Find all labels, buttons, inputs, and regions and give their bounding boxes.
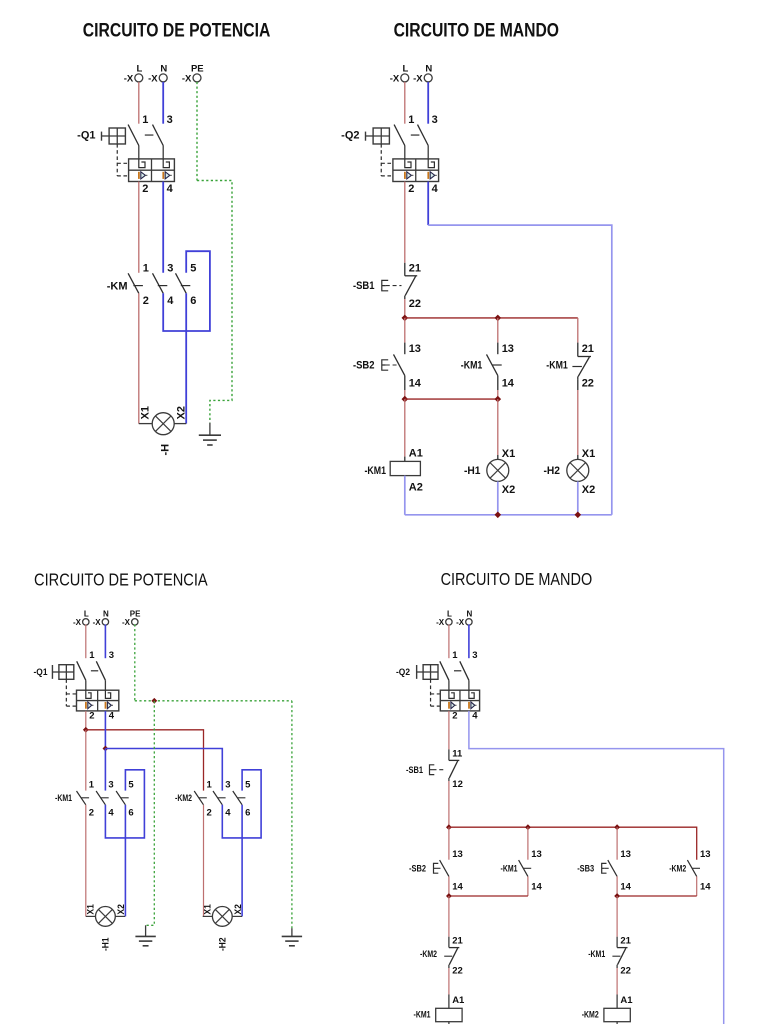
breaker -Q2 trip linkage (dashed) (380, 144, 382, 176)
svg-text:5: 5 (245, 780, 251, 791)
svg-text:N: N (467, 610, 473, 619)
svg-text:-Q2: -Q2 (341, 130, 359, 142)
svg-text:2: 2 (142, 183, 148, 195)
breaker -Q1 thermal element pole x=85.8 (86, 690, 91, 698)
svg-text:-KM1: -KM1 (501, 864, 519, 875)
svg-text:21: 21 (582, 343, 594, 355)
contactor KM pole 3-4 blade (153, 273, 164, 293)
lamp -H2 (212, 907, 232, 927)
node junction bus/KM1-NO (525, 824, 531, 830)
wire PE dashed green from terminal (196, 82, 198, 181)
wire SB2 out (red) (448, 876, 450, 896)
wire from Q1 pole 4 down to contactor KM (blue) (162, 182, 164, 273)
svg-text:-X: -X (73, 618, 82, 627)
wire stub lamp X2 (174, 423, 186, 425)
terminal -X PE (132, 619, 138, 625)
wire SB3 out (red) (616, 876, 618, 896)
svg-text:4: 4 (472, 710, 478, 721)
seal bus right pair (red) (617, 895, 697, 897)
svg-text:L: L (136, 64, 142, 75)
wire branch lead x=404.8 (red) (404, 318, 406, 343)
svg-text:N: N (103, 610, 109, 619)
contactor -KM1 link dash 3 (121, 797, 129, 799)
svg-text:-H1: -H1 (100, 937, 111, 951)
svg-text:22: 22 (452, 965, 463, 976)
contact -SB3 NO blade (608, 860, 617, 876)
svg-text:-X: -X (182, 74, 192, 85)
svg-text:2: 2 (408, 183, 414, 195)
svg-text:1: 1 (408, 114, 414, 126)
svg-text:-H2: -H2 (217, 938, 228, 952)
wire branch lead x=577.8 (red) (577, 318, 579, 343)
bus wire seal-in (red) (405, 398, 498, 400)
wire down to NC -KM2 (red) (448, 896, 450, 937)
contactor -KM1 link dash 1 (81, 797, 89, 799)
wire KM pole6 down to lamp X2 (blue) (185, 293, 187, 423)
seal bus left pair (red) (449, 895, 528, 897)
svg-text:14: 14 (409, 378, 422, 390)
pushbutton -SB2 (NO) blade (394, 354, 405, 375)
svg-text:L: L (447, 610, 452, 619)
svg-text:X1: X1 (139, 406, 151, 419)
svg-text:3: 3 (472, 650, 477, 661)
breaker -Q2 trip linkage (dashed) (430, 679, 432, 706)
terminal -X L (135, 74, 143, 82)
PE green bus horizontal (bottom-left) (135, 700, 292, 702)
svg-text:2: 2 (89, 808, 94, 819)
contact -KM1 NO link dash (492, 364, 502, 366)
svg-text:3: 3 (108, 780, 113, 791)
svg-text:A1: A1 (409, 447, 423, 459)
svg-text:22: 22 (409, 298, 421, 310)
svg-text:X2: X2 (233, 904, 244, 915)
svg-text:3: 3 (167, 114, 173, 126)
svg-text:A2: A2 (409, 481, 423, 493)
wire down to NC -KM1 (red) (616, 896, 618, 937)
wire red down to KM1 pole1 (85, 730, 87, 791)
contact -KM1 NC link dash (572, 366, 582, 368)
wire L to Q2 (red) (448, 624, 450, 658)
wire stub below coil -KM2 (616, 1022, 618, 1024)
svg-text:2: 2 (89, 710, 94, 721)
wire branch lead x=527.9 (red) (527, 827, 529, 860)
node junction blue bus (103, 746, 109, 752)
svg-text:-SB1: -SB1 (353, 280, 375, 292)
breaker -Q1 thermal element pole x=138.8 (139, 159, 145, 168)
svg-text:12: 12 (452, 779, 463, 790)
pushbutton -SB1 (NC) (448, 749, 450, 760)
node junction red bus (83, 727, 89, 733)
contactor -KM2 pole blade 3 (233, 791, 242, 805)
breaker -Q2 blade link dash (454, 670, 461, 672)
svg-text:CIRCUITO DE MANDO: CIRCUITO DE MANDO (394, 21, 559, 42)
breaker -Q2 magnetic element I> pole x=404.8 (404, 172, 406, 179)
svg-text:-KM1: -KM1 (461, 360, 483, 372)
svg-text:13: 13 (700, 849, 711, 860)
breaker -Q1 operating mechanism (59, 665, 74, 680)
bottom bus wire (blue) (405, 514, 612, 516)
svg-text:6: 6 (190, 295, 196, 307)
svg-text:-X: -X (413, 74, 423, 85)
wire H1 X2 to bottom bus (blue) (497, 481, 499, 514)
svg-text:PE: PE (130, 610, 141, 619)
lamp -H2 (567, 459, 589, 481)
wire stub lamp X2 (-H1) (115, 915, 125, 917)
breaker -Q1 magnetic element I> pole x=85.8 (85, 702, 87, 709)
breaker -Q1 contact blades (77, 661, 86, 680)
wire stub below coil -KM1 (448, 1022, 450, 1024)
svg-text:4: 4 (432, 183, 439, 195)
wire down to coil KM1 (red) (404, 399, 406, 457)
breaker -Q2 thermal element pole x=448.9 (449, 690, 454, 698)
node junction seal-in right (495, 396, 502, 403)
contactor -KM2 pole blade 1 (194, 791, 203, 805)
wire H2 X2 to bottom bus (blue) (577, 481, 579, 514)
wire SB2 out (dark then red) (404, 376, 406, 390)
svg-text:13: 13 (409, 343, 421, 355)
pushbutton -SB2 actuator (434, 863, 439, 873)
main bus wire (red) (449, 827, 697, 860)
wire -KM1 pole4 loop to pole5 (blue) (105, 770, 144, 838)
wire KM pole4 loop down-right-up to pole5 (blue) (163, 251, 210, 331)
bus wire to KM2 pole1 (dark red) (86, 730, 204, 791)
svg-text:-Q2: -Q2 (396, 667, 410, 678)
terminal -X N (102, 619, 108, 625)
svg-text:5: 5 (190, 263, 196, 275)
svg-text:N: N (425, 64, 432, 75)
node junction seal left (446, 893, 452, 899)
svg-text:4: 4 (109, 710, 115, 721)
wire N to Q1 (blue) (104, 624, 106, 658)
wire from Q1 pole 2 down to contactor KM (red) (138, 182, 140, 273)
wire to right rail (light blue) (428, 225, 612, 515)
svg-text:A1: A1 (452, 995, 465, 1006)
svg-text:21: 21 (620, 936, 631, 947)
svg-text:X1: X1 (502, 448, 515, 460)
contactor -KM1 pole blade 1 (77, 791, 86, 805)
breaker -Q1 magnetic element I> pole x=163.2 (162, 172, 164, 179)
terminal -X PE (193, 74, 201, 82)
PE green drop to ground 2 (291, 701, 293, 928)
svg-text:-KM1: -KM1 (55, 793, 73, 804)
wire N from terminal to breaker Q1 (blue) (162, 82, 164, 124)
wire PE dashed green down (134, 624, 136, 700)
svg-text:13: 13 (531, 849, 542, 860)
svg-text:-X: -X (124, 74, 134, 85)
terminal -X L (446, 619, 452, 625)
svg-text:14: 14 (531, 882, 542, 893)
breaker -Q2 thermal element pole x=428.2 (428, 159, 434, 168)
lamp -H1 (96, 907, 116, 927)
contact lead SB2 (dark) (404, 343, 406, 355)
terminal -X N (424, 74, 432, 82)
svg-text:1: 1 (89, 780, 95, 791)
svg-text:-X: -X (456, 618, 465, 627)
svg-text:-KM1: -KM1 (588, 949, 606, 960)
svg-text:3: 3 (432, 114, 438, 126)
svg-text:-X: -X (390, 74, 400, 85)
contactor -KM1 pole blade 2 (96, 791, 105, 805)
node junction H2/bus (575, 512, 582, 519)
breaker -Q1 operating mechanism (109, 128, 125, 144)
wire Q2 pole4 to right rail (blue) (469, 711, 724, 1024)
svg-text:-X: -X (436, 618, 445, 627)
breaker -Q1 thermal element pole x=163.2 (163, 159, 169, 168)
svg-text:3: 3 (109, 650, 114, 661)
svg-text:22: 22 (620, 965, 631, 976)
coil -KM1 (436, 1008, 462, 1021)
svg-text:-KM2: -KM2 (420, 949, 437, 960)
breaker -Q2 magnetic element I> pole x=428.2 (427, 172, 429, 179)
breaker -Q1 blade link dash (91, 670, 98, 672)
svg-text:1: 1 (207, 780, 213, 791)
contact -KM1 NO link dash (523, 867, 531, 869)
wire KM2-NO out (red) (696, 876, 698, 896)
wire N to Q2 (blue) (468, 624, 470, 658)
svg-text:6: 6 (128, 808, 133, 819)
wire stub lamp X1 (-H1) (86, 915, 96, 917)
svg-text:X1: X1 (202, 903, 213, 914)
contactor KM pole 5-6 blade (176, 273, 187, 293)
contactor -KM2 link dash 1 (199, 797, 207, 799)
pushbutton -SB2 actuator (382, 360, 388, 370)
svg-text:14: 14 (620, 882, 631, 893)
svg-text:-H2: -H2 (544, 465, 561, 477)
contact -KM1 NC link dash (612, 955, 620, 957)
node junction SB1/bus (402, 315, 409, 322)
contactor -KM2 link dash 2 (218, 797, 226, 799)
svg-text:1: 1 (142, 114, 148, 126)
svg-text:-SB3: -SB3 (577, 864, 594, 875)
svg-text:N: N (160, 64, 167, 75)
svg-text:-Q1: -Q1 (77, 130, 95, 142)
wire Q2 pole2 down to SB1 (red) (448, 711, 450, 750)
wire blue down to KM1 pole3 (104, 749, 106, 791)
breaker -Q1 contact blades (128, 125, 139, 146)
svg-text:13: 13 (452, 849, 463, 860)
PE green drop to ground 1 (146, 701, 155, 926)
svg-text:-KM2: -KM2 (582, 1010, 599, 1021)
wire Q2 pole4 down (blue) (427, 182, 429, 226)
node junction seal-in left (402, 396, 409, 403)
terminal -X L (83, 619, 89, 625)
svg-text:4: 4 (167, 183, 174, 195)
svg-text:CIRCUITO DE MANDO: CIRCUITO DE MANDO (441, 569, 593, 589)
wire KM pole2 down to lamp (red) (138, 293, 140, 423)
bus wire upper (red) (405, 317, 578, 319)
contactor -KM1 link dash 2 (101, 797, 109, 799)
svg-text:CIRCUITO DE POTENCIA: CIRCUITO DE POTENCIA (34, 570, 208, 590)
pushbutton -SB3 actuator (602, 863, 607, 873)
svg-text:L: L (84, 610, 89, 619)
terminal -X N (466, 619, 472, 625)
wire stub lamp X2 (-H2) (232, 915, 242, 917)
ground symbol 2 (bottom-left) (291, 928, 293, 936)
svg-text:X2: X2 (502, 484, 515, 496)
breaker -Q1 thermal-magnetic box (77, 690, 119, 711)
wire Q1 pole2 down (red) (85, 711, 87, 730)
svg-text:21: 21 (452, 936, 463, 947)
svg-text:2: 2 (207, 808, 212, 819)
contactor KM pole 1-2 blade (128, 273, 139, 293)
wire -KM2 pole4 loop to pole5 (blue) (222, 770, 261, 838)
contact -KM2 NC (448, 937, 450, 948)
contact -KM1 NO blade (487, 354, 498, 375)
svg-text:-KM2: -KM2 (669, 864, 686, 875)
wire NC out to coil (red) (616, 968, 618, 995)
contact -KM1 NC (616, 937, 618, 948)
bus wire to KM2 pole3 (blue) (105, 749, 222, 791)
svg-text:-Q1: -Q1 (34, 667, 49, 678)
breaker -Q1 blade link dash (145, 134, 154, 136)
svg-text:-KM1: -KM1 (546, 360, 568, 372)
wire KM1-NO out (dark then red) (497, 376, 499, 390)
wire -KM1 pole6 down to lamp (blue) (124, 805, 126, 917)
svg-text:X1: X1 (582, 448, 595, 460)
svg-text:1: 1 (452, 650, 458, 661)
svg-text:3: 3 (167, 263, 173, 275)
svg-text:-SB1: -SB1 (406, 765, 424, 776)
svg-text:2: 2 (143, 295, 149, 307)
breaker -Q2 magnetic element I> pole x=448.9 (448, 702, 450, 709)
contact -KM2 NC link dash (444, 955, 452, 957)
svg-text:X1: X1 (85, 903, 96, 914)
breaker -Q1 trip linkage (dashed) (116, 144, 118, 176)
wire KM1-NC down to lamp H2 (dark then red) (577, 380, 579, 390)
svg-text:X2: X2 (582, 484, 595, 496)
coil -KM1 (390, 461, 420, 475)
contact -KM2 NO link dash (692, 867, 700, 869)
breaker -Q2 thermal element pole x=404.8 (405, 159, 411, 168)
svg-text:21: 21 (409, 262, 421, 274)
svg-text:14: 14 (502, 378, 515, 390)
svg-text:-KM1: -KM1 (365, 465, 387, 477)
breaker -Q2 operating mechanism (423, 665, 438, 680)
breaker -Q2 thermal-magnetic box (440, 690, 479, 711)
node junction bus/KM1-NO branch (495, 315, 502, 322)
svg-text:22: 22 (582, 378, 594, 390)
contactor KM pole link dash 2 (158, 285, 168, 287)
coil -KM2 (604, 1008, 630, 1021)
wire stub to lamp X1 (139, 423, 153, 425)
contactor -KM2 link dash 3 (238, 797, 246, 799)
svg-text:-SB2: -SB2 (353, 360, 375, 372)
svg-text:4: 4 (167, 295, 174, 307)
contactor -KM1 pole blade 3 (116, 791, 125, 805)
contact -KM1 NC lead (dark) (577, 343, 579, 357)
svg-text:-KM2: -KM2 (175, 793, 192, 804)
wire NC out to coil (red) (448, 968, 450, 995)
svg-text:-X: -X (93, 618, 102, 627)
contactor KM pole link dash 1 (133, 285, 143, 287)
svg-text:11: 11 (452, 749, 463, 760)
svg-text:X2: X2 (176, 406, 188, 419)
wire SB1 to node bus (red) (404, 299, 406, 318)
PE dashed green run to ground (top-left) (197, 181, 232, 423)
wire Q1 pole4 down (blue) (104, 711, 106, 749)
svg-text:5: 5 (128, 780, 134, 791)
svg-text:4: 4 (225, 808, 231, 819)
terminal -X L (401, 74, 409, 82)
node junction H1/bus (495, 512, 502, 519)
wire SB1 to main bus (red) (448, 781, 450, 827)
wire N to Q2 (blue) (427, 82, 429, 124)
svg-text:-H1: -H1 (464, 465, 481, 477)
svg-text:-X: -X (148, 74, 158, 85)
svg-text:-KM1: -KM1 (414, 1010, 432, 1021)
svg-text:14: 14 (700, 882, 711, 893)
contact -SB2 NO blade (440, 860, 449, 876)
pushbutton -SB1 (NC) (404, 263, 406, 276)
svg-text:13: 13 (620, 849, 631, 860)
wire -KM2 pole2 down to lamp (red) (203, 805, 205, 917)
breaker -Q2 blade link dash (411, 134, 420, 136)
breaker -Q1 thermal-magnetic box (129, 159, 175, 182)
wire branch lead x=617.1 (red) (616, 827, 618, 860)
svg-text:PE: PE (191, 64, 204, 75)
wire L from terminal to breaker Q1 (red) (138, 82, 140, 124)
wire branch lead x=497.8 (red) (497, 318, 499, 343)
wire -KM1 pole2 down to lamp (red) (85, 805, 87, 917)
breaker -Q1 trip linkage (dashed) (65, 679, 67, 706)
svg-text:13: 13 (502, 343, 514, 355)
wire stub lamp X1 (-H2) (203, 915, 213, 917)
breaker -Q1 magnetic element I> pole x=105.4 (105, 702, 107, 709)
contact lead KM1-NO (dark) (497, 343, 499, 355)
contactor -KM2 pole blade 2 (213, 791, 222, 805)
svg-text:-H: -H (159, 444, 171, 456)
svg-text:A1: A1 (620, 995, 633, 1006)
wire L to Q1 (red) (85, 624, 87, 658)
node junction on PE bus (151, 698, 157, 704)
svg-text:-X: -X (122, 618, 131, 627)
svg-text:L: L (402, 64, 408, 75)
pushbutton -SB1 actuator (382, 280, 388, 290)
wire coil A2 to bottom bus (blue) (404, 476, 406, 515)
wire down to lamp H1 (red) (497, 399, 499, 455)
lamp -H (152, 413, 174, 435)
wire KM1-NO out (red) (527, 876, 529, 896)
svg-text:1: 1 (89, 650, 95, 661)
contact -KM2 NO blade (687, 860, 696, 876)
breaker -Q2 contact blades (394, 125, 405, 146)
svg-text:6: 6 (245, 808, 250, 819)
svg-text:3: 3 (225, 780, 230, 791)
svg-text:1: 1 (143, 263, 149, 275)
svg-text:-SB2: -SB2 (409, 864, 426, 875)
breaker -Q2 thermal element pole x=468.9 (469, 690, 474, 698)
wire Q2 pole2 down to SB1 (red) (404, 182, 406, 263)
node junction seal right (614, 893, 620, 899)
node junction bus/SB3 (614, 824, 620, 830)
pushbutton -SB1 actuator (430, 765, 435, 775)
wire L to Q2 (red) (404, 82, 406, 124)
breaker -Q1 magnetic element I> pole x=138.8 (138, 172, 140, 179)
contactor KM pole link dash 3 (181, 285, 191, 287)
svg-text:4: 4 (108, 808, 114, 819)
contact -KM1 NC (578, 356, 591, 358)
svg-text:-KM: -KM (107, 280, 128, 292)
breaker -Q2 operating mechanism (373, 128, 389, 144)
terminal -X N (159, 74, 167, 82)
svg-text:CIRCUITO DE POTENCIA: CIRCUITO DE POTENCIA (83, 21, 271, 42)
ground symbol (top-left) (209, 423, 211, 435)
lamp -H1 (487, 459, 509, 481)
contact -KM1 NO blade (519, 860, 528, 876)
svg-text:14: 14 (452, 882, 463, 893)
breaker -Q2 magnetic element I> pole x=468.9 (468, 702, 470, 709)
ground symbol 1 (bottom-left) (145, 925, 147, 936)
